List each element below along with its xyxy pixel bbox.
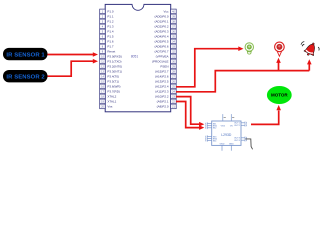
svg-text:P1.6: P1.6 bbox=[107, 40, 114, 44]
svg-text:(A13)P2.5: (A13)P2.5 bbox=[155, 80, 169, 84]
svg-text:P3.4(T0): P3.4(T0) bbox=[107, 75, 119, 79]
svg-text:P3.7(RD): P3.7(RD) bbox=[107, 90, 120, 94]
svg-text:P3.1(TXD): P3.1(TXD) bbox=[107, 60, 121, 64]
svg-text:(A9)P2.1: (A9)P2.1 bbox=[157, 100, 169, 104]
svg-text:(VPP)/EA: (VPP)/EA bbox=[156, 55, 169, 59]
svg-text:P1.2: P1.2 bbox=[107, 20, 114, 24]
svg-text:(A11)P2.3: (A11)P2.3 bbox=[155, 90, 169, 94]
svg-text:PSEN: PSEN bbox=[160, 65, 168, 69]
svg-text:P1.1: P1.1 bbox=[107, 15, 114, 19]
svg-text:(AD1)P0.1: (AD1)P0.1 bbox=[154, 20, 168, 24]
svg-text:P1.5: P1.5 bbox=[107, 35, 114, 39]
svg-text:P1.0: P1.0 bbox=[107, 10, 114, 14]
svg-text:(A10)P2.2: (A10)P2.2 bbox=[155, 95, 169, 99]
svg-text:Vcc: Vcc bbox=[163, 10, 169, 14]
svg-text:P3.6(WR): P3.6(WR) bbox=[107, 85, 120, 89]
svg-text:8051: 8051 bbox=[131, 54, 139, 58]
svg-text:OUT2: OUT2 bbox=[234, 125, 241, 127]
svg-text:P3.3(INT1): P3.3(INT1) bbox=[107, 70, 122, 74]
svg-text:IR SENSOR 1: IR SENSOR 1 bbox=[6, 53, 45, 59]
svg-text:(AD7)P0.7: (AD7)P0.7 bbox=[154, 50, 168, 54]
svg-text:OUT4: OUT4 bbox=[234, 140, 241, 142]
svg-text:(AD5)P0.5: (AD5)P0.5 bbox=[154, 40, 168, 44]
svg-text:MOTOR: MOTOR bbox=[271, 93, 288, 98]
svg-text:(AD6)P0.6: (AD6)P0.6 bbox=[154, 45, 168, 49]
svg-text:(AD3)P0.3: (AD3)P0.3 bbox=[154, 30, 168, 34]
svg-text:VSS: VSS bbox=[221, 125, 226, 127]
svg-text:Vss: Vss bbox=[107, 105, 113, 109]
svg-text:P3.5(T1): P3.5(T1) bbox=[107, 80, 119, 84]
svg-text:(AD4)P0.4: (AD4)P0.4 bbox=[154, 35, 168, 39]
svg-text:(A15)P2.7: (A15)P2.7 bbox=[155, 70, 169, 74]
svg-text:GND: GND bbox=[220, 143, 225, 145]
svg-text:(A12)P2.4: (A12)P2.4 bbox=[155, 85, 169, 89]
svg-text:P3.2(INT0): P3.2(INT0) bbox=[107, 65, 122, 69]
svg-text:XTAL2: XTAL2 bbox=[107, 95, 116, 99]
svg-text:P1.4: P1.4 bbox=[107, 30, 114, 34]
svg-text:GND: GND bbox=[229, 143, 234, 145]
svg-text:(A14)P2.6: (A14)P2.6 bbox=[155, 75, 169, 79]
svg-text:XTAL1: XTAL1 bbox=[107, 100, 116, 104]
svg-text:L293D: L293D bbox=[221, 133, 232, 137]
svg-text:(AD2)P0.2: (AD2)P0.2 bbox=[154, 25, 168, 29]
svg-text:P1.7: P1.7 bbox=[107, 45, 114, 49]
svg-text:IR SENSOR 2: IR SENSOR 2 bbox=[6, 75, 45, 81]
svg-text:(AD0)P0.0: (AD0)P0.0 bbox=[154, 15, 168, 19]
svg-text:(A8)P2.0: (A8)P2.0 bbox=[157, 105, 169, 109]
svg-text:Reset: Reset bbox=[107, 50, 115, 54]
svg-text:P3.0(RXD): P3.0(RXD) bbox=[107, 55, 122, 59]
svg-text:P1.3: P1.3 bbox=[107, 25, 114, 29]
svg-text:(PROG)ALE: (PROG)ALE bbox=[152, 60, 169, 64]
